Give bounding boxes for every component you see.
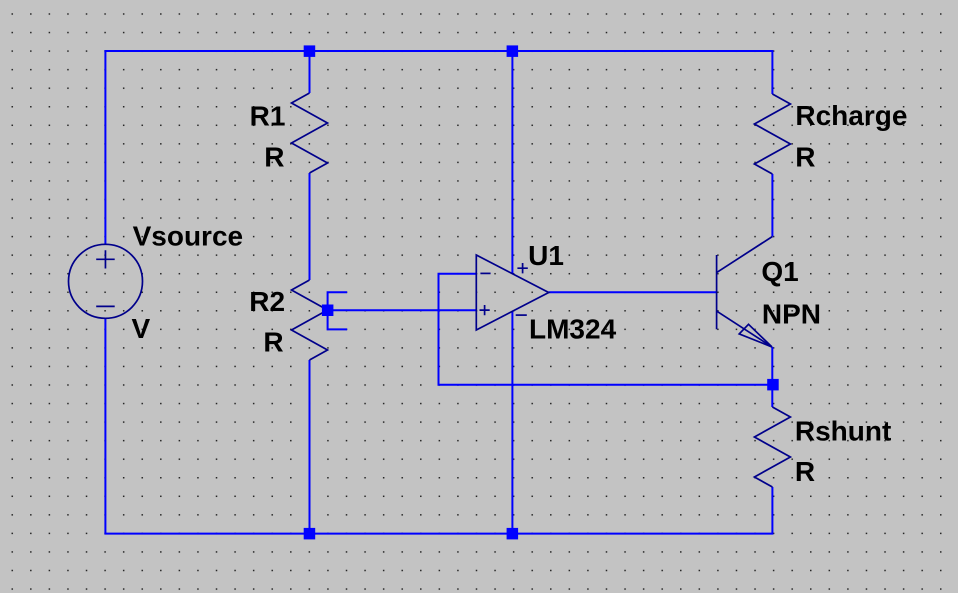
wire: op-amp output to Q1 base <box>549 291 717 293</box>
label Rcharge <box>795 100 907 131</box>
wire: R2 bottom to bottom rail <box>309 360 311 534</box>
op-amp non-inverting input plus <box>480 305 490 315</box>
label U1 <box>528 240 564 271</box>
wire: Rcharge bottom to Q1 collector <box>771 174 773 237</box>
transistor Q1 emitter stroke <box>717 311 772 347</box>
node junction top-middle (op-amp V+ / top rail) <box>507 45 518 57</box>
label Q1 <box>761 256 798 287</box>
resistor R1 <box>292 93 328 173</box>
value R of R2 <box>263 327 283 358</box>
value R of Rshunt <box>795 456 815 487</box>
voltage source V1 circle <box>69 244 143 318</box>
svg-text:R: R <box>263 327 283 358</box>
svg-text:Rshunt: Rshunt <box>795 415 891 446</box>
node junction top-left (R1 / top rail) <box>304 45 316 57</box>
wire: feedback from inverting input down and right to emitter node <box>439 274 774 385</box>
value R of Rcharge <box>795 141 815 172</box>
svg-text:R1: R1 <box>250 100 286 131</box>
label R1 <box>250 100 286 131</box>
op-amp inverting input dash <box>480 272 490 274</box>
label Rshunt <box>795 415 891 446</box>
node junction bottom-left (R2 / bottom rail) <box>304 528 316 540</box>
value V of Vsource <box>132 313 151 344</box>
wire: op-amp V- power pin to bottom rail <box>511 311 513 533</box>
svg-text:R: R <box>795 141 815 172</box>
svg-text:U1: U1 <box>528 240 564 271</box>
transistor Q1 base bar <box>716 255 718 329</box>
value LM324 of U1 <box>529 314 617 345</box>
wire: Q1 emitter to Rshunt top <box>771 347 773 407</box>
voltage source minus sign <box>96 305 115 307</box>
value R of R1 <box>264 141 284 172</box>
transistor Q1 emitter arrowhead <box>739 324 772 347</box>
wire: bracket stub at R2 tap <box>328 292 348 329</box>
label R2 <box>249 286 285 317</box>
wire: top rail junction to R1 top <box>309 51 311 93</box>
wire: op-amp V+ power pin from top rail <box>511 51 513 274</box>
svg-text:NPN: NPN <box>762 298 821 329</box>
svg-text:V: V <box>132 313 151 344</box>
value NPN of Q1 <box>762 298 821 329</box>
resistor R2 <box>292 280 328 360</box>
wire: Vsource- down, bottom rail, up to Rshunt bottom <box>105 318 772 533</box>
svg-text:LM324: LM324 <box>529 314 617 345</box>
wire: R2 tap to op-amp non-inverting input <box>328 309 477 311</box>
resistor Rcharge <box>754 94 790 174</box>
op-amp U1 triangle <box>476 255 548 330</box>
svg-text:R2: R2 <box>249 286 285 317</box>
svg-text:Rcharge: Rcharge <box>795 100 907 131</box>
svg-text:Vsource: Vsource <box>133 220 244 251</box>
node junction R2 tap <box>322 305 334 317</box>
label Vsource <box>133 220 244 251</box>
op-amp V- power pin label <box>516 314 527 316</box>
svg-text:Q1: Q1 <box>761 256 798 287</box>
wire: top rail with left drop to Vsource+ and right drop to Rcharge <box>105 51 772 244</box>
transistor Q1 collector stroke <box>717 237 772 273</box>
resistor Rshunt <box>754 407 790 487</box>
node junction emitter/Rshunt/feedback <box>767 379 779 391</box>
op-amp V+ power pin label <box>517 263 527 273</box>
svg-text:R: R <box>264 141 284 172</box>
voltage source plus sign <box>96 250 115 268</box>
node junction bottom-middle (op-amp V- / bottom rail) <box>507 528 518 540</box>
wire: R1 bottom to R2 top <box>309 173 311 280</box>
svg-text:R: R <box>795 456 815 487</box>
